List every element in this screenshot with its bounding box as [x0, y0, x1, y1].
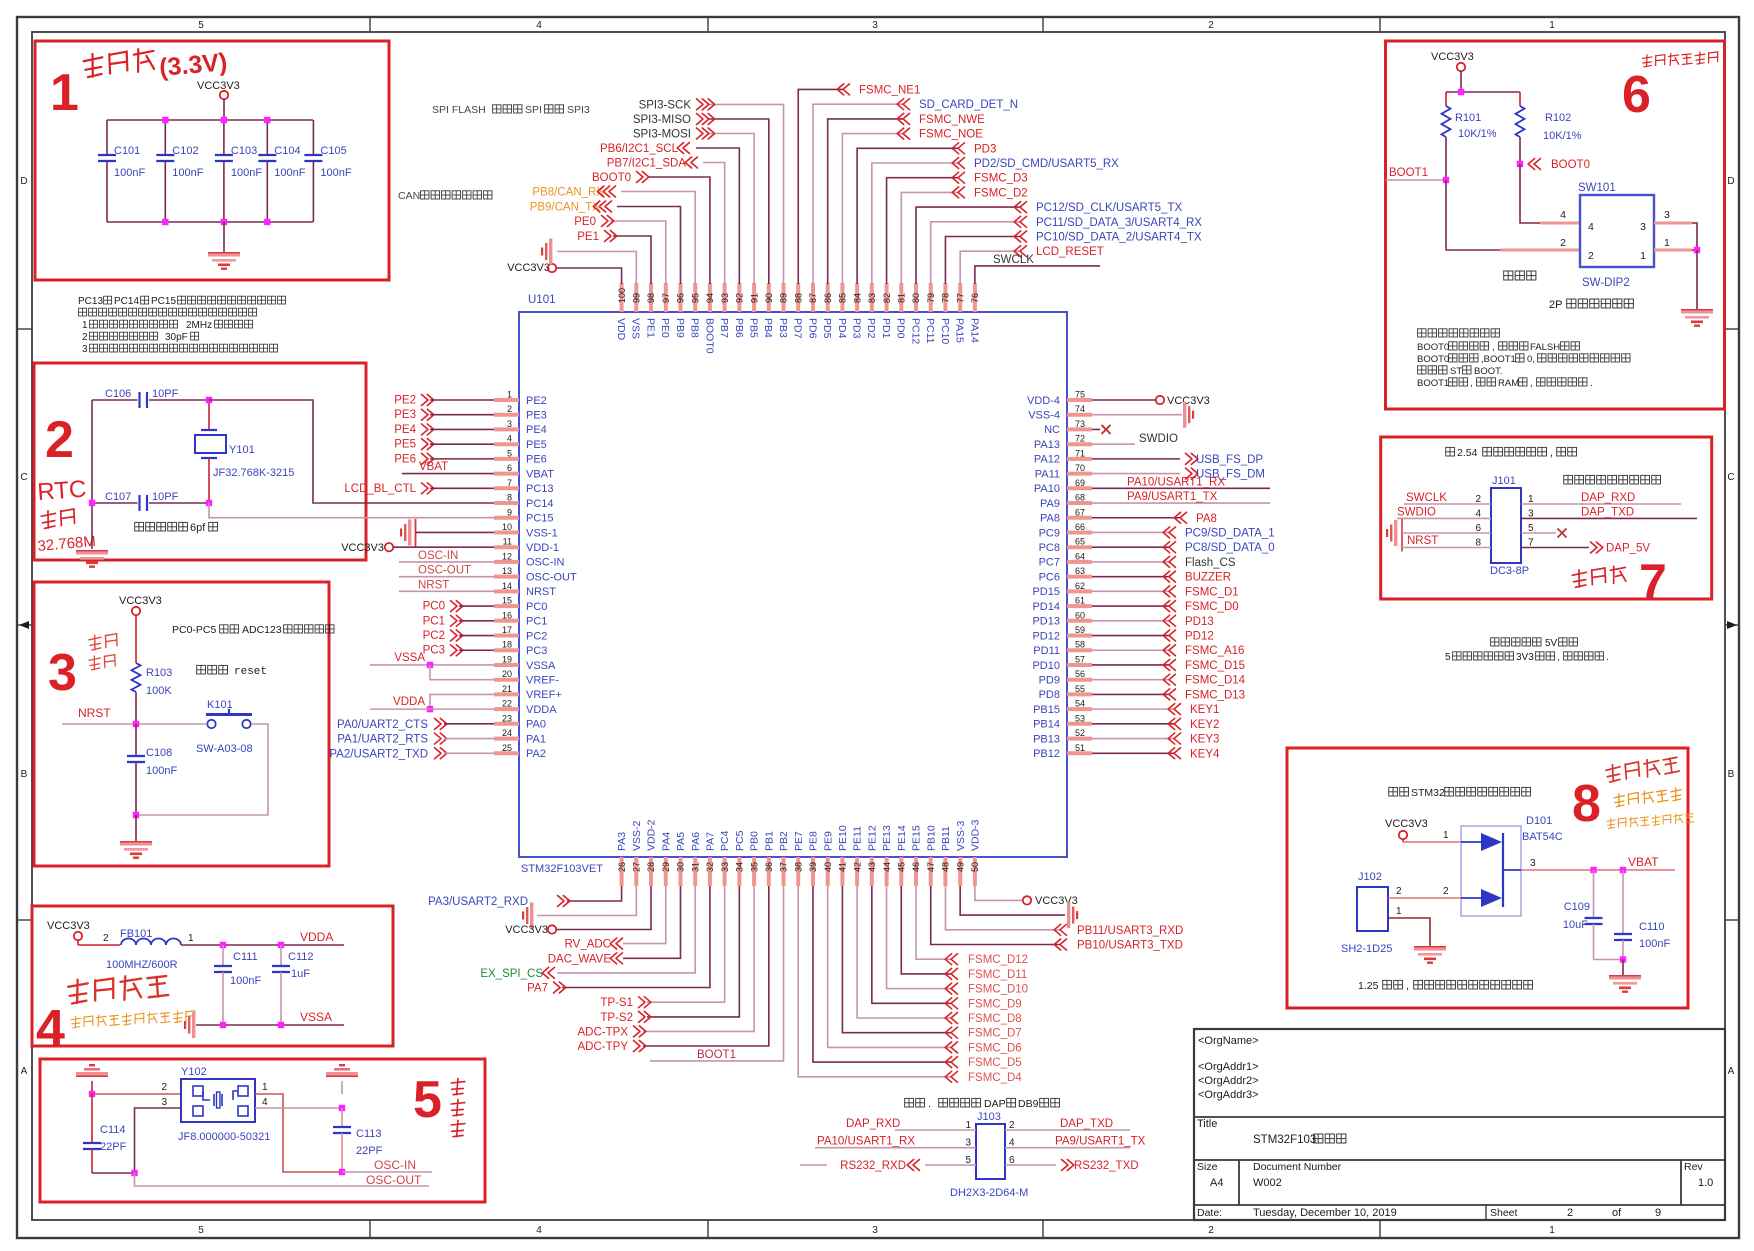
wire bottom pin 34 to left fan	[647, 886, 739, 1017]
MCU left pins 1-25 with numbers and names	[494, 390, 577, 761]
svg-text:9: 9	[507, 507, 512, 517]
resistor R101 10K/1%	[1442, 92, 1497, 180]
wire C109/C110 bottom	[1594, 959, 1624, 961]
svg-text:5: 5	[413, 1071, 442, 1129]
svg-text:VDD-1: VDD-1	[526, 542, 559, 554]
svg-text:PE1: PE1	[577, 231, 599, 243]
connector J101 body	[1491, 488, 1521, 563]
junction dots region1	[162, 117, 270, 225]
crystal Y102 JF8.000000-50321	[178, 1066, 270, 1143]
svg-text:3: 3	[1530, 858, 1536, 869]
wire top bus region1	[107, 119, 313, 121]
svg-text:67: 67	[1075, 507, 1085, 517]
svg-text:74: 74	[1075, 404, 1085, 414]
note 1.25 socket battery	[1358, 980, 1533, 992]
svg-text:9: 9	[1655, 1207, 1661, 1219]
ground region2	[76, 550, 108, 568]
handwritten (无外电使用电池) orange	[1607, 813, 1694, 829]
svg-text:1: 1	[50, 64, 79, 122]
svg-text:PA9: PA9	[1040, 498, 1060, 510]
svg-text:99: 99	[632, 293, 642, 303]
wire bottom pin 45 to right fan	[901, 886, 951, 974]
svg-text:1: 1	[188, 933, 194, 944]
net label PA10/USART1_RX (J103)	[817, 1136, 915, 1148]
reference designator J102	[1358, 871, 1382, 883]
connector J102 body	[1357, 887, 1388, 931]
wire J103 pin2 DAP_TXD	[1005, 1129, 1130, 1131]
svg-text:100nF: 100nF	[114, 167, 145, 179]
svg-text:PD2: PD2	[865, 318, 877, 339]
wire crystal top to PC14 pin8	[209, 400, 494, 503]
wire FSMC_D13 pin55	[1092, 693, 1169, 695]
svg-text:BOOT0: BOOT0	[1417, 342, 1449, 353]
net label FSMC_D11 (bottom fan)	[945, 968, 1027, 981]
svg-text:FSMC_A16: FSMC_A16	[1185, 645, 1244, 657]
svg-text:PE13: PE13	[881, 825, 893, 851]
svg-text:BOOT1: BOOT1	[1389, 167, 1428, 179]
svg-text:OSC-IN: OSC-IN	[418, 550, 458, 562]
handwritten title 主电源(3.3V)	[83, 48, 228, 82]
node OSC32 bottom junction	[89, 500, 212, 506]
net label BOOT0 (top fan)	[592, 172, 649, 185]
wire crystal bottom to PC15 pin9	[209, 503, 494, 518]
svg-text:PA0/UART2_CTS: PA0/UART2_CTS	[337, 719, 428, 731]
svg-text:1: 1	[965, 1120, 971, 1131]
svg-text:<OrgAddr2>: <OrgAddr2>	[1198, 1075, 1259, 1087]
net label FSMC_D12 (bottom fan)	[945, 954, 1028, 967]
svg-text:41: 41	[838, 862, 848, 872]
svg-text:22PF: 22PF	[356, 1145, 383, 1157]
wire NRST pin14	[399, 590, 494, 592]
svg-text:SPI3-SCK: SPI3-SCK	[639, 99, 692, 111]
svg-text:FSMC_D14: FSMC_D14	[1185, 675, 1246, 687]
pin number 3 Y102	[161, 1097, 167, 1108]
svg-text:PE10: PE10	[837, 825, 849, 851]
svg-text:94: 94	[705, 293, 715, 303]
net label PC8/SD_DATA_0 (right)	[1163, 542, 1275, 555]
svg-text:FSMC_D13: FSMC_D13	[1185, 689, 1245, 701]
net label Flash_CS (right)	[1163, 556, 1236, 569]
svg-text:PA6: PA6	[690, 832, 702, 851]
svg-text:PB2: PB2	[778, 831, 790, 851]
svg-text:60: 60	[1075, 610, 1085, 620]
svg-text:PC13: PC13	[78, 296, 103, 307]
svg-text:PB6: PB6	[733, 318, 745, 338]
svg-text:65: 65	[1075, 537, 1085, 547]
svg-text:PC5: PC5	[734, 830, 746, 851]
wire bottom pin 39 to right fan	[813, 886, 951, 1062]
wire J101 pin6	[1402, 532, 1491, 534]
note text PC13/PC14/PC15 restrictions	[78, 296, 286, 355]
svg-text:J102: J102	[1358, 871, 1382, 883]
svg-text:PE5: PE5	[394, 439, 416, 451]
svg-text:90: 90	[764, 293, 774, 303]
svg-text:PB11: PB11	[940, 826, 952, 851]
svg-text:PC14: PC14	[114, 296, 139, 307]
svg-text:72: 72	[1075, 434, 1085, 444]
svg-text:C114: C114	[100, 1124, 125, 1136]
svg-text:7: 7	[1639, 554, 1667, 610]
svg-text:1: 1	[1549, 20, 1555, 31]
svg-text:.: .	[1590, 378, 1593, 389]
net label USB_FS_DP (right)	[1186, 453, 1264, 466]
note silkscreen region6	[1504, 271, 1536, 280]
svg-text:C113: C113	[356, 1128, 381, 1140]
wire top pin 84 to right fan	[857, 148, 958, 284]
power symbol VCC3V3 region3	[132, 607, 140, 663]
net label VCC3V3 region6	[1431, 51, 1474, 63]
net label NRST (left)	[418, 579, 449, 591]
svg-text:PB8/CAN_RX: PB8/CAN_RX	[532, 187, 604, 199]
net label VCC3V3 region8	[1385, 818, 1428, 830]
svg-text:26: 26	[617, 862, 627, 872]
svg-text:8: 8	[1572, 775, 1601, 833]
wire BUZZER pin63	[1092, 576, 1169, 578]
ground bottom fan (VSS-2 pin27)	[522, 903, 533, 929]
svg-text:TP-S1: TP-S1	[600, 997, 633, 1009]
MCU top pins 100-76 with numbers and names	[615, 283, 980, 354]
svg-text:A4: A4	[1210, 1177, 1223, 1189]
svg-text:3: 3	[507, 419, 512, 429]
svg-text:BOOT0: BOOT0	[1551, 159, 1590, 171]
note serial select DAP/DB9	[905, 1098, 1060, 1110]
svg-text:10PF: 10PF	[152, 388, 179, 400]
net label PB7/I2C1_SDA (top fan)	[607, 157, 698, 170]
note pin5 is debugger 3V3	[1445, 652, 1609, 663]
svg-text:100nF: 100nF	[1639, 938, 1670, 950]
net label PD12 (right)	[1163, 630, 1214, 643]
svg-text:VCC3V3: VCC3V3	[505, 924, 548, 936]
svg-text:BOOT0: BOOT0	[592, 172, 631, 184]
net label PB9/CAN_TX (top fan)	[530, 201, 612, 214]
note 2.54 connector text	[1446, 447, 1577, 459]
net label PA7 (bottom fan)	[527, 982, 566, 995]
svg-text:56: 56	[1075, 669, 1085, 679]
net label DAP_RXD (J101)	[1581, 492, 1635, 504]
svg-text:OSC-IN: OSC-IN	[526, 557, 565, 569]
ground region6	[1681, 309, 1713, 327]
wire KEY3 pin52	[1092, 738, 1174, 740]
node OSC32 top junction	[206, 397, 212, 403]
svg-text:4: 4	[36, 1000, 65, 1058]
net label FSMC_D2 (top fan)	[952, 187, 1028, 200]
net label ADC-TPY (bottom fan)	[578, 1041, 646, 1054]
wire top pin 77 to right fan	[960, 251, 1020, 284]
net label PE6 (left)	[394, 453, 434, 465]
svg-text:DAP: DAP	[984, 1098, 1006, 1110]
svg-text:PB1: PB1	[763, 831, 775, 851]
svg-text:PB15: PB15	[1033, 704, 1060, 716]
wire J101 pin1 DAP_RXD	[1521, 503, 1681, 505]
net label FSMC_NOE (top fan)	[897, 128, 983, 141]
net label SPI3-MISO (top fan)	[633, 114, 715, 127]
svg-text:VCC3V3: VCC3V3	[119, 595, 162, 607]
svg-text:36: 36	[764, 862, 774, 872]
svg-text:64: 64	[1075, 551, 1085, 561]
net label FSMC_NWE (top fan)	[897, 113, 985, 126]
capacitor C105 100nF	[304, 120, 351, 222]
net label VCC3V3 (pin50 bottom right)	[1023, 895, 1078, 907]
svg-text:Rev: Rev	[1684, 1161, 1703, 1173]
svg-text:KEY1: KEY1	[1190, 704, 1219, 716]
svg-text:30: 30	[676, 862, 686, 872]
svg-text:PD8: PD8	[1039, 689, 1060, 701]
section number 6	[1622, 66, 1651, 124]
svg-text:2: 2	[1396, 886, 1402, 897]
svg-text:45: 45	[896, 862, 906, 872]
wire bottom pin 50 to right fan	[975, 886, 1023, 900]
wire PA0/UART2_CTS pin23	[444, 723, 494, 725]
wire bottom pin 31 to left fan	[557, 886, 695, 973]
net label PB6/I2C1_SCL (top fan)	[600, 143, 690, 156]
svg-text:14: 14	[502, 581, 512, 591]
svg-text:53: 53	[1075, 713, 1085, 723]
svg-text:62: 62	[1075, 581, 1085, 591]
svg-text:2: 2	[1588, 250, 1594, 262]
section number 2	[45, 411, 74, 469]
svg-text:85: 85	[838, 293, 848, 303]
switch K101 SW-A03-08	[196, 699, 253, 755]
pin number 4 Y102	[262, 1097, 268, 1108]
ground left fan (VSS-1 pin10)	[400, 519, 416, 547]
net label PA10/USART1_RX (right)	[1127, 476, 1225, 488]
wire SWDIO pin72	[1092, 443, 1135, 445]
svg-text:PA11: PA11	[1035, 468, 1060, 480]
svg-text:51: 51	[1075, 743, 1085, 753]
svg-text:DH2X3-2D64-M: DH2X3-2D64-M	[950, 1187, 1028, 1199]
wire VSSA pin19	[370, 664, 494, 666]
svg-text:PE7: PE7	[793, 831, 805, 851]
wire D101 pin3 VBAT rail	[1521, 869, 1675, 871]
svg-text:SW-A03-08: SW-A03-08	[196, 743, 253, 755]
wire J101 pin7 DAP_5V	[1521, 547, 1589, 549]
svg-text:3: 3	[965, 1138, 971, 1149]
svg-text:SWCLK: SWCLK	[1406, 492, 1447, 504]
net label VDDA region4	[300, 930, 333, 944]
wire FSMC_D15 pin57	[1092, 664, 1169, 666]
svg-text:55: 55	[1075, 684, 1085, 694]
svg-text:FSMC_D9: FSMC_D9	[968, 998, 1022, 1010]
svg-text:2: 2	[103, 933, 109, 944]
net label FSMC_D13 (right)	[1163, 689, 1245, 702]
svg-text:66: 66	[1075, 522, 1085, 532]
handwritten 低功耗使用 orange	[1614, 787, 1683, 807]
svg-text:NRST: NRST	[418, 579, 449, 591]
wire VDDA rail	[181, 944, 344, 946]
wire C108 to ground	[135, 815, 137, 841]
svg-text:KEY3: KEY3	[1190, 734, 1219, 746]
svg-text:TP-S2: TP-S2	[600, 1012, 633, 1024]
svg-text:LCD_RESET: LCD_RESET	[1036, 246, 1104, 258]
handwritten 调试口	[1572, 565, 1627, 588]
net label VSSA region4	[300, 1010, 332, 1024]
wire PD12 pin59	[1092, 635, 1169, 637]
svg-text:PA0: PA0	[526, 719, 546, 731]
reference designator SW101	[1578, 182, 1616, 194]
net label PA3/USART2_RXD	[428, 896, 570, 909]
power symbol VCC3V3 region8	[1399, 831, 1407, 842]
svg-text:SWDIO: SWDIO	[1397, 507, 1436, 519]
svg-text:FSMC_D1: FSMC_D1	[1185, 586, 1239, 598]
net label PC9/SD_DATA_1 (right)	[1163, 527, 1275, 540]
svg-text:1: 1	[82, 320, 88, 331]
svg-text:PA1: PA1	[526, 733, 546, 745]
svg-text:C112: C112	[288, 951, 313, 963]
ground region8 bottom	[1609, 975, 1641, 993]
svg-text:SW-DIP2: SW-DIP2	[1582, 277, 1630, 289]
wire bottom pin 32 to left fan	[562, 886, 710, 988]
svg-text:6: 6	[1009, 1155, 1015, 1166]
wire top pin 99 to left fan	[557, 252, 636, 285]
svg-text:PB9/CAN_TX: PB9/CAN_TX	[530, 202, 601, 214]
svg-text:100nF: 100nF	[274, 167, 305, 179]
net label VCC3V3 region3	[119, 595, 162, 607]
net label FSMC_A16 (right)	[1163, 645, 1244, 658]
wire C114 bottom to OSC-OUT node	[92, 1172, 135, 1174]
svg-text:6: 6	[1622, 66, 1651, 124]
pin number 1 Y102	[262, 1082, 268, 1093]
svg-text:PB7/I2C1_SDA: PB7/I2C1_SDA	[607, 158, 687, 170]
svg-text:Size: Size	[1197, 1161, 1218, 1173]
svg-text:73: 73	[1075, 419, 1085, 429]
net label FSMC_D10 (bottom fan)	[945, 983, 1028, 996]
svg-text:C111: C111	[233, 951, 258, 963]
svg-text:1: 1	[1664, 237, 1670, 249]
net label PC12/SD_CLK/USART5_TX (top fan)	[1014, 202, 1182, 215]
wire top pin 79 to right fan	[931, 222, 1020, 284]
wire to ground region6	[1696, 250, 1698, 309]
section box 1 main power	[35, 41, 389, 280]
net label VDDA (left)	[393, 696, 425, 708]
net label NRST (J101)	[1407, 535, 1438, 547]
svg-text:93: 93	[720, 293, 730, 303]
svg-text:5: 5	[965, 1155, 971, 1166]
svg-text:VDDA: VDDA	[393, 696, 425, 708]
net label KEY4 (right)	[1168, 748, 1220, 761]
svg-text:PC9: PC9	[1039, 527, 1060, 539]
svg-text:Document Number: Document Number	[1253, 1161, 1342, 1173]
net label OSC-OUT region5	[366, 1173, 422, 1187]
net label PC11/SD_DATA_3/USART4_RX (top fan)	[1014, 216, 1202, 229]
svg-text:FSMC_D4: FSMC_D4	[968, 1072, 1022, 1084]
svg-text:VSS: VSS	[630, 318, 642, 339]
svg-text:3: 3	[48, 644, 77, 702]
svg-text:100nF: 100nF	[172, 167, 203, 179]
svg-text:PE15: PE15	[911, 825, 923, 851]
net label FSMC_D4 (bottom fan)	[945, 1071, 1022, 1084]
net label SWCLK	[993, 254, 1034, 266]
net label LCD_BL_CTL	[344, 483, 433, 495]
svg-text:100nF: 100nF	[231, 167, 262, 179]
svg-text:VDD-2: VDD-2	[646, 819, 658, 851]
net label PE5 (left)	[394, 439, 434, 451]
wire bottom pin 44 to right fan	[887, 886, 951, 989]
net label BOOT0 region6	[1528, 159, 1590, 172]
svg-text:C103: C103	[231, 145, 257, 157]
svg-text:46: 46	[911, 862, 921, 872]
svg-text:STM32F103VET: STM32F103VET	[521, 863, 603, 875]
note pin silkscreen	[1564, 475, 1661, 484]
junction C108 bottom	[133, 812, 139, 818]
svg-text:PB10/USART3_TXD: PB10/USART3_TXD	[1077, 940, 1183, 952]
pin number 1 FB101	[188, 933, 194, 944]
capacitor C114 22PF	[83, 1094, 127, 1173]
wire OSC-OUT pin13	[399, 576, 494, 578]
svg-text:PD0: PD0	[895, 318, 907, 339]
svg-text:PE2: PE2	[394, 395, 416, 407]
wire top pin 88 to right fan	[798, 89, 843, 284]
wire J102 pin2 to D101 pin2	[1388, 897, 1461, 899]
svg-text:3: 3	[1640, 221, 1646, 233]
net label PC0 (left)	[423, 601, 463, 613]
wire NRST	[62, 723, 206, 725]
svg-text:57: 57	[1075, 654, 1085, 664]
svg-text:VSSA: VSSA	[394, 652, 425, 664]
net label SWDIO (J101)	[1397, 507, 1436, 519]
svg-text:FSMC_D11: FSMC_D11	[968, 969, 1027, 981]
section number 8	[1572, 775, 1601, 833]
svg-text:PC13: PC13	[526, 483, 554, 495]
svg-text:69: 69	[1075, 478, 1085, 488]
part label DC3-8P	[1490, 565, 1529, 577]
svg-text:100K: 100K	[146, 685, 172, 697]
svg-text:10PF: 10PF	[152, 491, 179, 503]
svg-text:BOOT0: BOOT0	[1417, 354, 1449, 365]
svg-text:Y101: Y101	[229, 444, 255, 456]
svg-text:SD_CARD_DET_N: SD_CARD_DET_N	[919, 99, 1018, 111]
svg-text:2: 2	[1443, 886, 1449, 897]
svg-text:FSMC_NWE: FSMC_NWE	[919, 114, 985, 126]
capacitor C101 100nF	[98, 120, 145, 222]
wire PC9/SD_DATA_1 pin66	[1092, 531, 1169, 533]
wire top pin 91 to left fan	[708, 134, 754, 285]
wire bottom pin 30 to left fan	[623, 886, 680, 958]
net label PA8 (right)	[1174, 512, 1217, 525]
svg-text:2.54: 2.54	[1457, 447, 1478, 459]
svg-text:49: 49	[955, 862, 965, 872]
svg-text:D: D	[20, 176, 27, 187]
net label EX_SPI_CS (bottom fan)	[480, 967, 554, 980]
svg-text:PD15: PD15	[1032, 586, 1060, 598]
wire top pin 95 to left fan	[621, 192, 695, 285]
svg-text:<OrgAddr1>: <OrgAddr1>	[1198, 1061, 1259, 1073]
svg-text:VDDA: VDDA	[526, 704, 557, 716]
svg-text:24: 24	[502, 728, 512, 738]
net label FSMC_D8 (bottom fan)	[945, 1013, 1022, 1026]
svg-text:77: 77	[955, 293, 965, 303]
net label VBAT region8	[1628, 855, 1659, 869]
note ADC123 input channels	[172, 624, 334, 636]
svg-text:PC12: PC12	[909, 318, 921, 344]
svg-text:6: 6	[507, 463, 512, 473]
svg-text:43: 43	[867, 862, 877, 872]
svg-text:PC7: PC7	[1039, 557, 1060, 569]
net label PD2/SD_CMD/USART5_RX (top fan)	[952, 158, 1119, 171]
svg-text:100nF: 100nF	[320, 167, 351, 179]
svg-text:PC2: PC2	[423, 630, 445, 642]
svg-text:EX_SPI_CS: EX_SPI_CS	[480, 968, 543, 980]
wire top pin 87 to right fan	[813, 104, 903, 284]
net label VCC3V3 (region1)	[197, 80, 240, 92]
svg-text:54: 54	[1075, 699, 1085, 709]
svg-text:,: ,	[1557, 652, 1560, 663]
svg-text:SWDIO: SWDIO	[1139, 433, 1178, 445]
power symbol VCC3V3 region6	[1457, 63, 1465, 92]
svg-text:Flash_CS: Flash_CS	[1185, 557, 1236, 569]
svg-text:DC3-8P: DC3-8P	[1490, 565, 1529, 577]
svg-text:PC2: PC2	[526, 630, 547, 642]
svg-text:89: 89	[779, 293, 789, 303]
